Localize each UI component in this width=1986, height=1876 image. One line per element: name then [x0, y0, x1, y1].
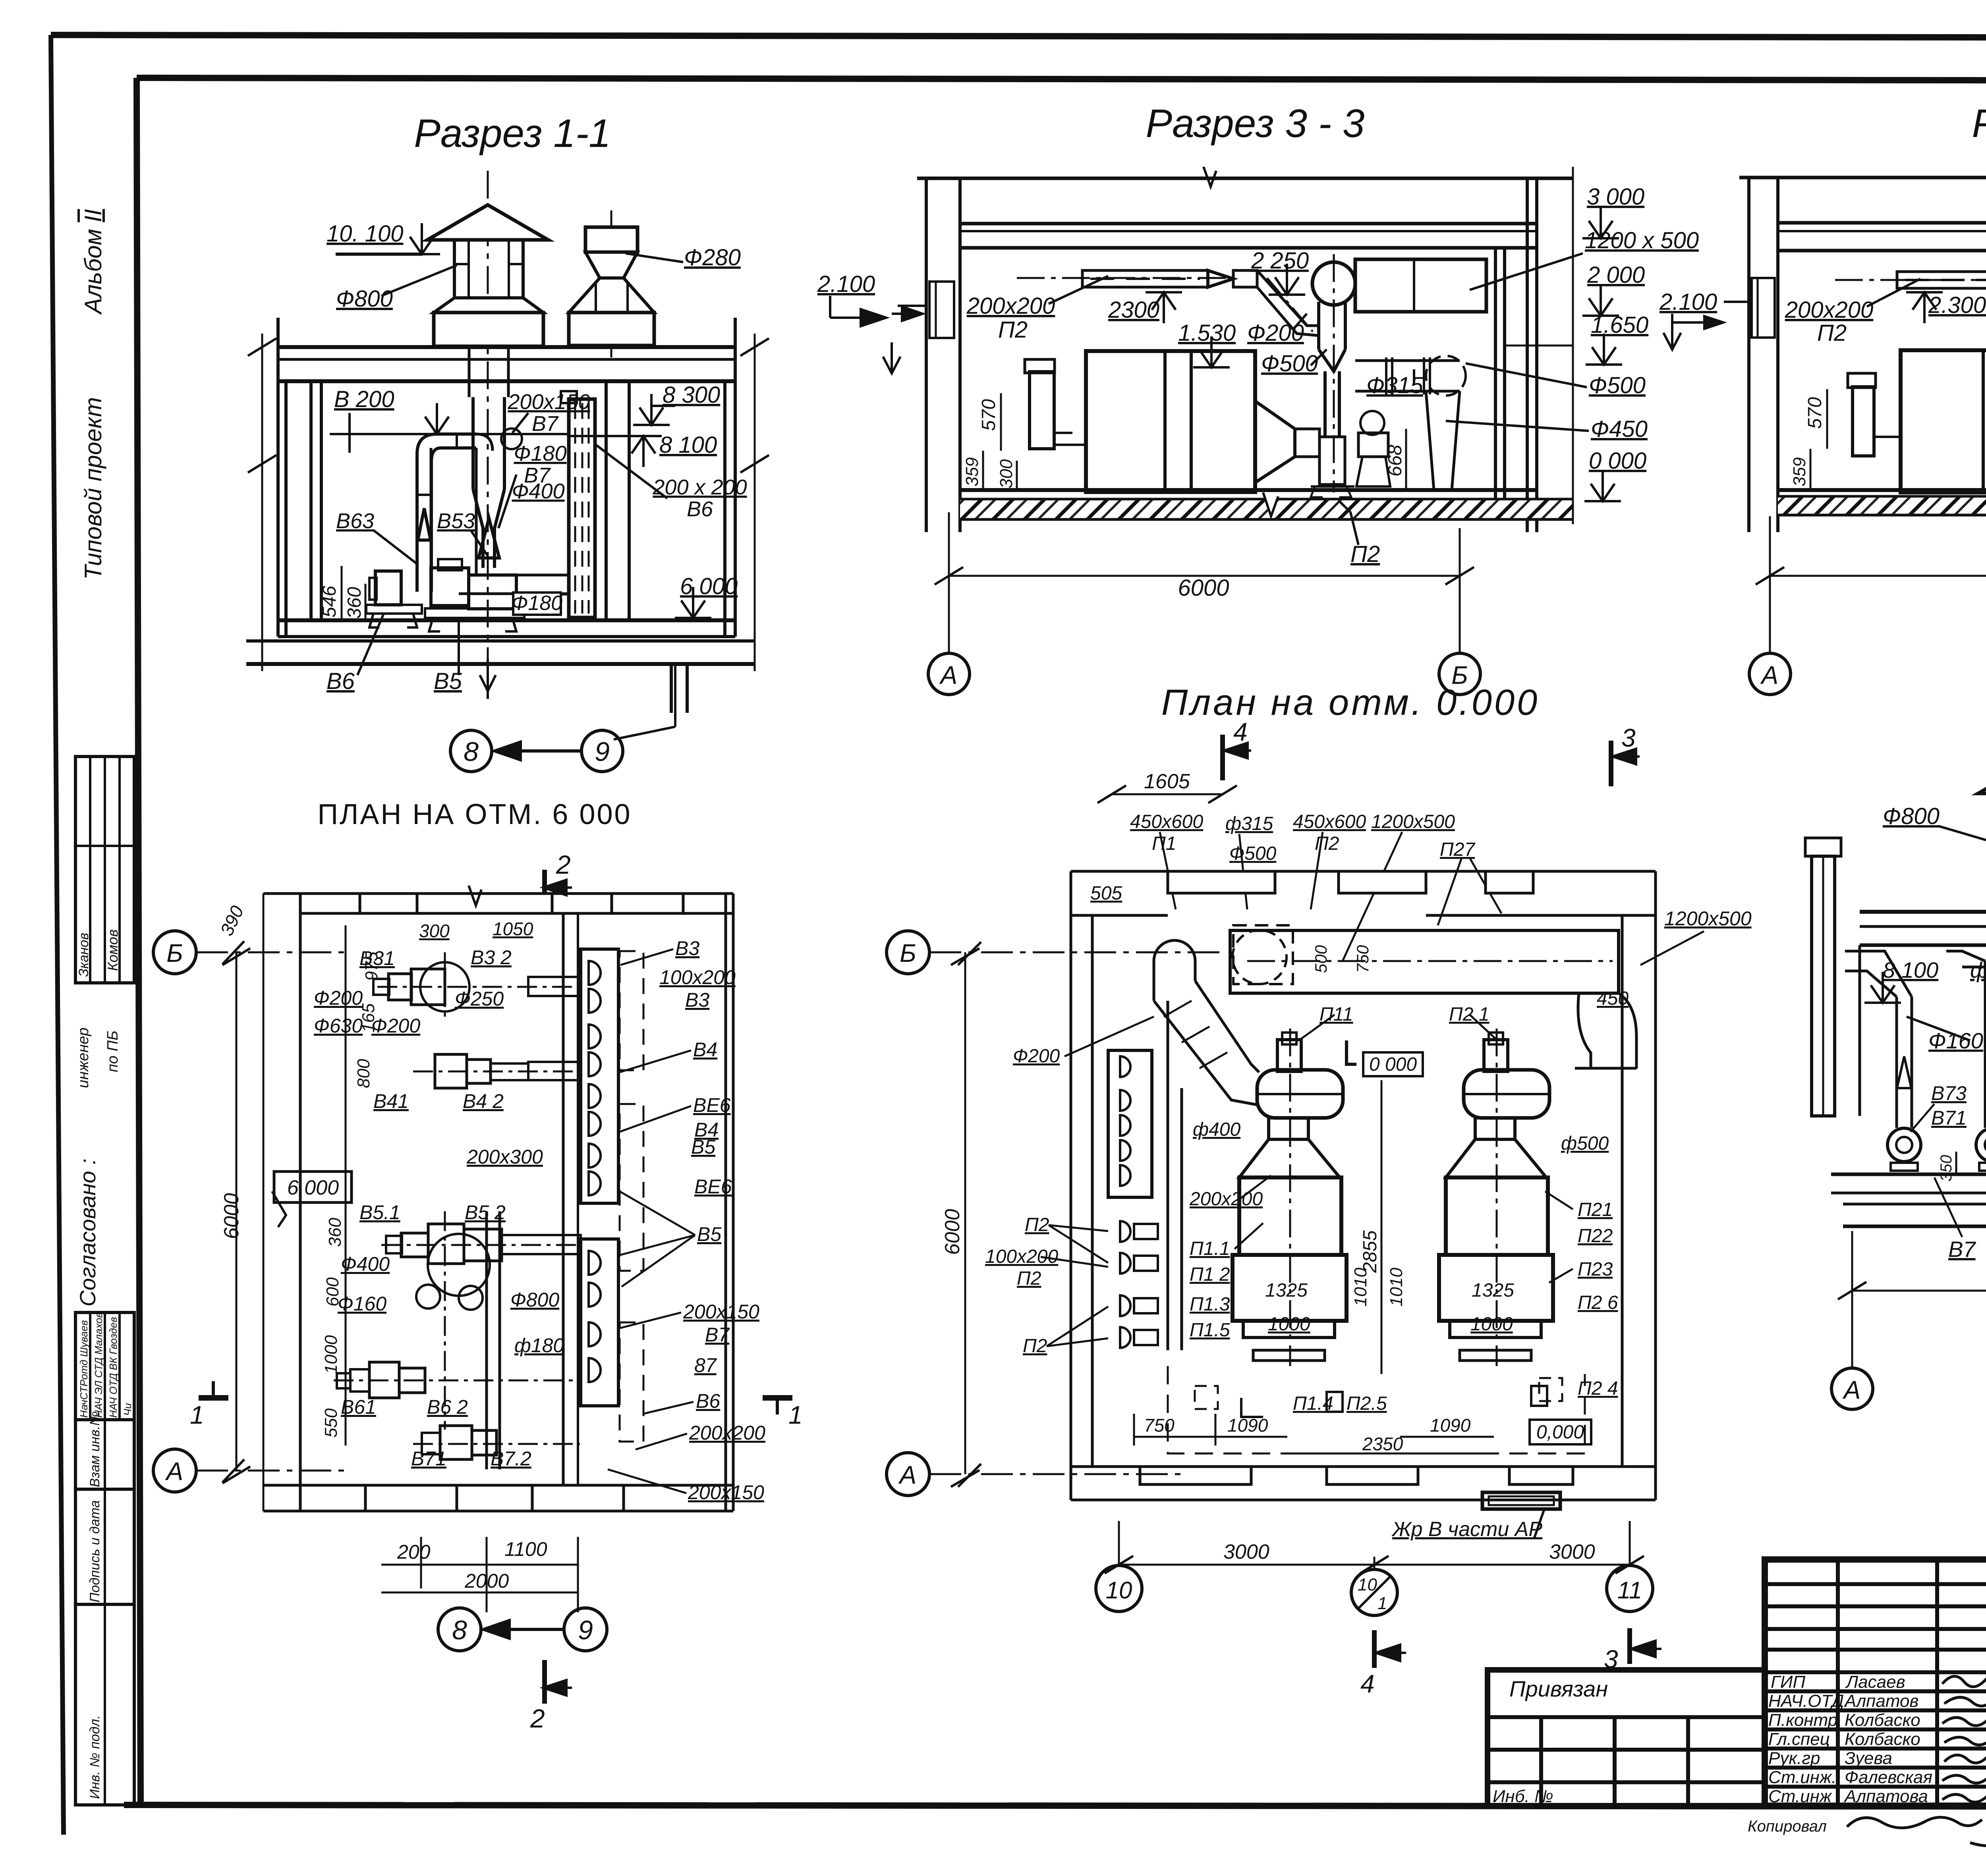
axis node B — [1439, 653, 1480, 695]
svg-text:Зканов: Зканов — [76, 933, 91, 977]
svg-text:2 000: 2 000 — [1587, 262, 1645, 288]
duct elbow F160 — [417, 434, 476, 592]
svg-text:300: 300 — [419, 921, 450, 941]
svg-text:Чи: Чи — [122, 1403, 133, 1416]
roof slab — [1778, 221, 1986, 225]
svg-text:П2: П2 — [1025, 1214, 1049, 1235]
main title block outline — [1765, 1559, 1986, 1806]
svg-text:1010: 1010 — [1351, 1268, 1370, 1307]
node 10 — [1096, 1565, 1142, 1612]
duct run F500 to right — [1355, 359, 1460, 362]
svg-text:Ф200: Ф200 — [1247, 320, 1304, 346]
svg-text:750: 750 — [1353, 945, 1372, 973]
fan labels — [1931, 1062, 1986, 1133]
dim 1605 — [1112, 793, 1223, 795]
svg-text:2000: 2000 — [464, 1570, 509, 1592]
svg-text:8 300: 8 300 — [663, 382, 720, 408]
svg-text:2.100: 2.100 — [1659, 289, 1717, 315]
svg-text:359: 359 — [962, 457, 982, 486]
approvals table lower — [75, 1312, 134, 1420]
svg-text:3: 3 — [1621, 724, 1636, 752]
left shaft column — [1812, 856, 1835, 1116]
svg-text:200х150: 200х150 — [683, 1301, 759, 1323]
supply unit (air handler) — [1086, 351, 1255, 492]
svg-text:П23: П23 — [1578, 1259, 1613, 1280]
svg-text:100х200: 100х200 — [659, 966, 736, 988]
cell Подпись и дата — [75, 1489, 134, 1604]
svg-text:800: 800 — [354, 1059, 373, 1088]
svg-text:1.530: 1.530 — [1178, 320, 1236, 346]
supply fan scroll — [1312, 262, 1355, 305]
fan group B5 centre — [428, 1234, 490, 1296]
svg-text:359: 359 — [1790, 457, 1809, 486]
supply unit (air handler) — [1901, 350, 1986, 492]
labels top group — [314, 946, 564, 1470]
svg-text:9: 9 — [595, 737, 610, 767]
svg-text:В3: В3 — [675, 937, 699, 959]
svg-text:200 х 200: 200 х 200 — [652, 475, 747, 499]
section cut 1-1 marks — [199, 1395, 228, 1401]
cell Взам инв N — [75, 1420, 134, 1489]
fan group B4 — [435, 1054, 467, 1088]
label F180 boxed — [513, 593, 561, 615]
diagonal duct — [1154, 1001, 1257, 1105]
supply duct band 1200x500 — [1230, 930, 1619, 993]
left dims — [236, 952, 238, 1471]
svg-text:В61: В61 — [341, 1396, 376, 1418]
svg-text:Типовой проект: Типовой проект — [80, 397, 106, 580]
svg-text:Ф160: Ф160 — [1928, 1028, 1983, 1053]
svg-text:1100: 1100 — [504, 1538, 547, 1560]
centerline vent 1 — [487, 171, 489, 659]
labels right column — [659, 937, 765, 1504]
svg-text:Алпатов: Алпатов — [1843, 1691, 1918, 1711]
roof vent 1 (F800) — [427, 205, 548, 240]
node 9 — [582, 730, 623, 772]
left dim 6000 — [964, 952, 966, 1474]
walls — [276, 381, 280, 637]
svg-text:ф315: ф315 — [1225, 813, 1273, 834]
fan 1 (B7) — [1887, 1128, 1921, 1162]
duct shaft column right (vertical run) — [562, 913, 565, 1485]
node 11 — [1607, 1565, 1653, 1612]
svg-text:200х300: 200х300 — [466, 1146, 543, 1168]
svg-text:Ст.инж: Ст.инж — [1768, 1787, 1832, 1806]
svg-text:200х200: 200х200 — [966, 293, 1055, 319]
plan outline walls — [263, 892, 733, 895]
svg-text:360: 360 — [325, 1218, 345, 1247]
svg-text:В71: В71 — [411, 1448, 446, 1470]
svg-text:Ф200: Ф200 — [1013, 1046, 1060, 1067]
svg-text:Инб. №: Инб. № — [1493, 1787, 1553, 1806]
svg-text:П21: П21 — [1578, 1199, 1613, 1220]
svg-text:Ф250: Ф250 — [455, 988, 504, 1010]
svg-text:П1.3: П1.3 — [1190, 1294, 1230, 1315]
svg-text:В53: В53 — [437, 509, 475, 533]
roof vent 2 (F280) — [585, 227, 638, 252]
break mark top — [469, 886, 481, 905]
svg-text:6 000: 6 000 — [287, 1176, 339, 1199]
svg-text:А: А — [1760, 661, 1779, 689]
svg-text:550: 550 — [321, 1408, 341, 1438]
axis node A — [1831, 1368, 1873, 1409]
svg-text:4: 4 — [1233, 718, 1248, 746]
svg-text:200: 200 — [397, 1541, 431, 1563]
section flag 4 bottom — [1372, 1630, 1377, 1668]
section flag 3 bottom — [1627, 1628, 1632, 1664]
discharge duct 1200x500 top right — [1355, 259, 1486, 312]
fan group B3 top — [420, 962, 469, 1011]
svg-text:6000: 6000 — [1178, 575, 1229, 601]
dim 570 — [1000, 393, 1002, 451]
registers cabinet lower — [581, 1239, 618, 1406]
svg-text:Ф200: Ф200 — [314, 987, 363, 1009]
svg-text:В4: В4 — [693, 1038, 717, 1061]
section flag 4 top — [1220, 735, 1225, 780]
duct taper F400 — [473, 489, 483, 568]
svg-text:П2: П2 — [1350, 541, 1380, 567]
section flag 3 top — [1609, 741, 1613, 786]
svg-text:1: 1 — [190, 1401, 204, 1429]
svg-text:500: 500 — [1312, 945, 1330, 973]
svg-text:В63: В63 — [336, 509, 374, 533]
svg-text:ВЕ6: ВЕ6 — [694, 1175, 732, 1198]
svg-text:1200х500: 1200х500 — [1371, 811, 1455, 832]
svg-text:Копировал: Копировал — [1748, 1818, 1827, 1835]
dim 6000 bottom — [949, 575, 1460, 577]
svg-text:В5.1: В5.1 — [359, 1201, 400, 1224]
heater section left — [1030, 372, 1054, 449]
leader from node 9 — [674, 664, 676, 727]
supply duct 200x200 dashed — [1082, 270, 1208, 287]
fan unit B6 left — [375, 571, 401, 605]
svg-text:по ПБ: по ПБ — [104, 1031, 121, 1072]
svg-text:1605: 1605 — [1144, 770, 1190, 793]
svg-text:П2: П2 — [1315, 833, 1339, 854]
vertical duct F180 — [485, 1211, 488, 1469]
svg-text:200х200: 200х200 — [689, 1422, 765, 1444]
V3 — [153, 799, 803, 1733]
svg-text:В7: В7 — [1948, 1237, 1976, 1262]
wall window segments top — [1168, 871, 1275, 893]
bottom wall openings — [1140, 1467, 1251, 1484]
svg-text:Инв. № подл.: Инв. № подл. — [87, 1715, 102, 1799]
svg-text:3000: 3000 — [1549, 1540, 1595, 1563]
wall piers top — [300, 894, 360, 913]
svg-text:П2: П2 — [1017, 1268, 1041, 1289]
svg-text:360: 360 — [344, 587, 365, 619]
svg-text:Алпатова: Алпатова — [1843, 1787, 1928, 1806]
centre labels — [1189, 1004, 1618, 1414]
svg-text:В7.2: В7.2 — [491, 1448, 531, 1470]
cell Инв N подл — [75, 1604, 134, 1805]
svg-text:2: 2 — [530, 1704, 545, 1733]
svg-text:3 000: 3 000 — [1587, 184, 1644, 210]
svg-text:П2 1: П2 1 — [1449, 1004, 1489, 1025]
svg-text:НАЧ ОТД ВК Гвоздев: НАЧ ОТД ВК Гвоздев — [107, 1317, 119, 1418]
upper floor line — [1739, 176, 1986, 179]
svg-text:6000: 6000 — [941, 1209, 964, 1255]
approvals table upper (инженер по ПБ / Комов) — [75, 757, 134, 983]
svg-text:П1.1: П1.1 — [1190, 1238, 1230, 1259]
svg-text:11: 11 — [1617, 1577, 1642, 1604]
svg-text:350: 350 — [1938, 1155, 1955, 1181]
fan group B7 bottom — [440, 1426, 472, 1459]
upper floor line — [917, 177, 1573, 180]
svg-text:6000: 6000 — [220, 1193, 243, 1239]
supply duct 200x200 dashed — [1897, 272, 1986, 288]
dashed pit outline bottom — [1168, 1366, 1585, 1453]
svg-text:200х200: 200х200 — [1785, 297, 1874, 323]
connector duct B4 to cabinet — [528, 1062, 581, 1080]
svg-text:ф180: ф180 — [514, 1334, 564, 1357]
svg-text:П2 4: П2 4 — [1578, 1378, 1618, 1399]
svg-text:В73: В73 — [1931, 1082, 1967, 1104]
svg-text:Согласовано :: Согласовано : — [75, 1158, 100, 1307]
svg-text:Ф400: Ф400 — [341, 1253, 390, 1275]
svg-text:ГИП: ГИП — [1771, 1672, 1805, 1692]
svg-text:П1 2: П1 2 — [1190, 1264, 1230, 1285]
svg-text:Колбаско: Колбаско — [1845, 1729, 1920, 1749]
svg-text:В5: В5 — [697, 1223, 721, 1245]
svg-text:2.100: 2.100 — [817, 271, 875, 297]
svg-text:450х600: 450х600 — [1130, 811, 1203, 832]
svg-text:Ст.инж.: Ст.инж. — [1768, 1768, 1836, 1787]
svg-text:П2: П2 — [998, 317, 1028, 343]
svg-text:Рук.гр: Рук.гр — [1768, 1749, 1820, 1768]
svg-text:1: 1 — [1377, 1594, 1387, 1613]
fan unit B5 centre — [431, 568, 469, 606]
svg-text:Зуева: Зуева — [1845, 1749, 1892, 1768]
node 10/1 — [1351, 1569, 1397, 1615]
bottom dims — [1133, 1414, 1135, 1446]
leaders right — [620, 949, 673, 965]
connector duct B5 to cabinet — [502, 1235, 581, 1254]
svg-text:План на отм. 0.000: План на отм. 0.000 — [1161, 682, 1540, 723]
svg-text:ф400: ф400 — [1193, 1119, 1240, 1140]
svg-text:В7: В7 — [532, 412, 559, 436]
riser duct along left — [1167, 1001, 1169, 1350]
svg-text:1090: 1090 — [1430, 1415, 1471, 1436]
bottom dim 3000/3000 — [1118, 1521, 1120, 1565]
svg-text:200х150: 200х150 — [507, 390, 590, 414]
svg-text:Фалевская: Фалевская — [1845, 1768, 1932, 1787]
svg-text:В7: В7 — [705, 1324, 730, 1346]
svg-text:1200х500: 1200х500 — [1664, 907, 1752, 930]
left cabinet with registers — [1108, 1050, 1152, 1197]
svg-text:1010: 1010 — [1387, 1268, 1406, 1307]
svg-text:1000: 1000 — [321, 1335, 341, 1374]
right elbow down F500 — [1619, 993, 1636, 1069]
svg-text:8: 8 — [464, 737, 479, 767]
outer dim line left — [261, 334, 263, 671]
tower unit 1 (P1) — [1277, 1040, 1301, 1071]
svg-text:Ласаев: Ласаев — [1845, 1672, 1905, 1692]
node 9 bottom — [564, 1608, 607, 1651]
centrelines towers — [1289, 1029, 1291, 1366]
discharge duct to heater — [516, 575, 569, 594]
ground hatch — [1778, 498, 1986, 515]
axis node A — [1749, 653, 1791, 695]
right dim line — [1572, 167, 1574, 524]
sheet outer border top — [51, 35, 1986, 38]
svg-text:Ф280: Ф280 — [684, 245, 741, 270]
axis A — [887, 1453, 929, 1496]
node 8 bottom — [438, 1608, 481, 1651]
svg-text:2300: 2300 — [1108, 297, 1159, 323]
left arrow flag — [891, 342, 893, 373]
fan 2 (B6) — [1976, 1128, 1986, 1162]
dim 300 — [1016, 461, 1018, 490]
V2 — [1659, 101, 1986, 695]
svg-text:В4 2: В4 2 — [463, 1090, 504, 1112]
floor slabs — [1831, 1173, 1986, 1176]
left column — [1747, 178, 1750, 532]
svg-text:9: 9 — [578, 1615, 593, 1645]
bottom dim 6000 — [1852, 1290, 1986, 1292]
right wall — [1494, 248, 1497, 499]
intake elbow top left — [1154, 940, 1195, 961]
svg-text:Ф180: Ф180 — [512, 592, 562, 615]
LEFTSTRIP — [1488, 1559, 1986, 1846]
svg-text:Ф800: Ф800 — [510, 1289, 559, 1311]
svg-text:П2.5: П2.5 — [1347, 1393, 1387, 1414]
svg-text:А: А — [939, 661, 958, 689]
vertical dims centre — [1381, 1080, 1383, 1374]
outer dim line right — [754, 334, 756, 671]
svg-text:Разрез 3 - 3: Разрез 3 - 3 — [1146, 101, 1364, 146]
svg-text:Ф500: Ф500 — [1261, 351, 1318, 376]
svg-text:П1.5: П1.5 — [1190, 1320, 1230, 1341]
axis node A — [928, 653, 970, 695]
svg-text:Б: Б — [166, 939, 183, 967]
svg-text:1325: 1325 — [1265, 1280, 1308, 1301]
svg-text:200х150: 200х150 — [688, 1481, 764, 1504]
svg-text:Разрез 1-1: Разрез 1-1 — [414, 111, 611, 156]
inner frame bottom — [124, 1805, 1986, 1807]
svg-text:4: 4 — [1360, 1669, 1375, 1698]
roof slab — [1860, 910, 1986, 914]
svg-text:Ф800: Ф800 — [336, 286, 393, 312]
svg-text:3: 3 — [1604, 1645, 1618, 1673]
dim 668 — [1405, 429, 1407, 490]
svg-text:2: 2 — [556, 850, 571, 879]
svg-text:1200 х 500: 1200 х 500 — [1585, 228, 1699, 253]
svg-text:Ф450: Ф450 — [1591, 416, 1648, 442]
svg-text:10: 10 — [1106, 1577, 1132, 1604]
svg-text:570: 570 — [978, 399, 999, 431]
svg-text:8 100: 8 100 — [1883, 957, 1938, 982]
exhaust duct from vent1 down — [468, 346, 471, 397]
svg-text:П.контр: П.контр — [1768, 1710, 1837, 1730]
svg-text:10. 100: 10. 100 — [326, 221, 404, 247]
plan walls — [1071, 870, 1656, 873]
svg-text:1.650: 1.650 — [1591, 312, 1648, 338]
diagonal duct down to fan — [1257, 270, 1319, 326]
floor slab — [1778, 488, 1986, 492]
labels left — [985, 1046, 1060, 1357]
svg-text:П27: П27 — [1440, 839, 1476, 860]
sheet outer border left — [51, 35, 64, 1835]
svg-text:НАЧ.ОТД.: НАЧ.ОТД. — [1768, 1691, 1849, 1711]
svg-text:В6: В6 — [326, 668, 355, 694]
inner frame left — [137, 78, 141, 1806]
axis B — [153, 931, 196, 974]
floor slab — [960, 488, 1537, 492]
TITLEBLOCK — [246, 111, 885, 772]
svg-text:0 000: 0 000 — [1589, 448, 1646, 474]
bottom dims — [420, 1537, 422, 1588]
svg-text:6 000: 6 000 — [680, 573, 738, 599]
svg-text:П2: П2 — [1817, 320, 1847, 346]
svg-text:2350: 2350 — [1362, 1434, 1403, 1454]
svg-text:3000: 3000 — [1223, 1540, 1269, 1563]
svg-text:А: А — [1842, 1376, 1861, 1404]
axis A — [153, 1449, 196, 1492]
svg-text:В5 2: В5 2 — [465, 1201, 506, 1224]
svg-text:1000: 1000 — [1470, 1314, 1513, 1335]
centrelines — [1835, 279, 1986, 281]
svg-text:В5: В5 — [691, 1136, 715, 1158]
nozzle cone — [479, 518, 499, 558]
roof slab — [278, 345, 735, 349]
svg-text:Ф500: Ф500 — [1589, 372, 1646, 398]
svg-text:Ф500: Ф500 — [1229, 843, 1277, 864]
section flag 2 bottom — [542, 1660, 547, 1704]
column below floor — [670, 664, 673, 713]
inner dim chain — [345, 925, 347, 1446]
boxed level 0 000 — [1363, 1052, 1423, 1076]
svg-text:Ф400: Ф400 — [512, 479, 564, 503]
svg-text:Колбаско: Колбаско — [1845, 1710, 1920, 1730]
fan group B6 — [369, 1362, 399, 1398]
leaders above plan — [1160, 832, 1176, 909]
svg-text:300: 300 — [997, 459, 1016, 488]
svg-text:В31: В31 — [359, 947, 395, 969]
svg-text:2.300: 2.300 — [1928, 292, 1986, 318]
arrow 9 to 8 — [500, 749, 582, 753]
svg-text:ф180: ф180 — [1970, 957, 1986, 982]
dashed duct risers — [620, 951, 643, 1070]
svg-text:А: А — [898, 1461, 917, 1489]
svg-text:В6: В6 — [687, 497, 713, 521]
svg-text:Альбом II: Альбом II — [80, 209, 106, 315]
svg-text:Взам инв.№: Взам инв.№ — [87, 1411, 102, 1487]
inner frame top — [137, 78, 1986, 81]
svg-text:1325: 1325 — [1472, 1280, 1514, 1301]
label 6000 boxed — [274, 1172, 352, 1202]
svg-text:В71: В71 — [1931, 1107, 1967, 1129]
left column — [925, 178, 928, 532]
privyazan box — [1488, 1670, 1765, 1806]
intake cone right of unit — [1255, 401, 1295, 483]
svg-text:Привязан: Привязан — [1509, 1676, 1608, 1701]
svg-text:НачСТРотд Шуваев: НачСТРотд Шуваев — [78, 1320, 90, 1418]
dim 570 — [1826, 389, 1828, 449]
svg-text:546: 546 — [319, 586, 340, 618]
V4 — [887, 682, 1752, 1698]
dim 6000 bottom — [1770, 575, 1986, 577]
svg-text:Гл.спец: Гл.спец — [1768, 1729, 1830, 1749]
svg-text:Жр В части АР: Жр В части АР — [1391, 1518, 1542, 1541]
svg-text:В3 2: В3 2 — [471, 946, 512, 969]
svg-text:ПЛАН НА ОТМ. 6 000: ПЛАН НА ОТМ. 6 000 — [317, 799, 632, 830]
svg-text:1000: 1000 — [1268, 1314, 1310, 1335]
svg-text:инженер: инженер — [75, 1027, 92, 1088]
svg-text:750: 750 — [1144, 1415, 1175, 1436]
registers cabinet upper — [581, 949, 618, 1203]
labels above plan — [1090, 811, 1629, 1009]
